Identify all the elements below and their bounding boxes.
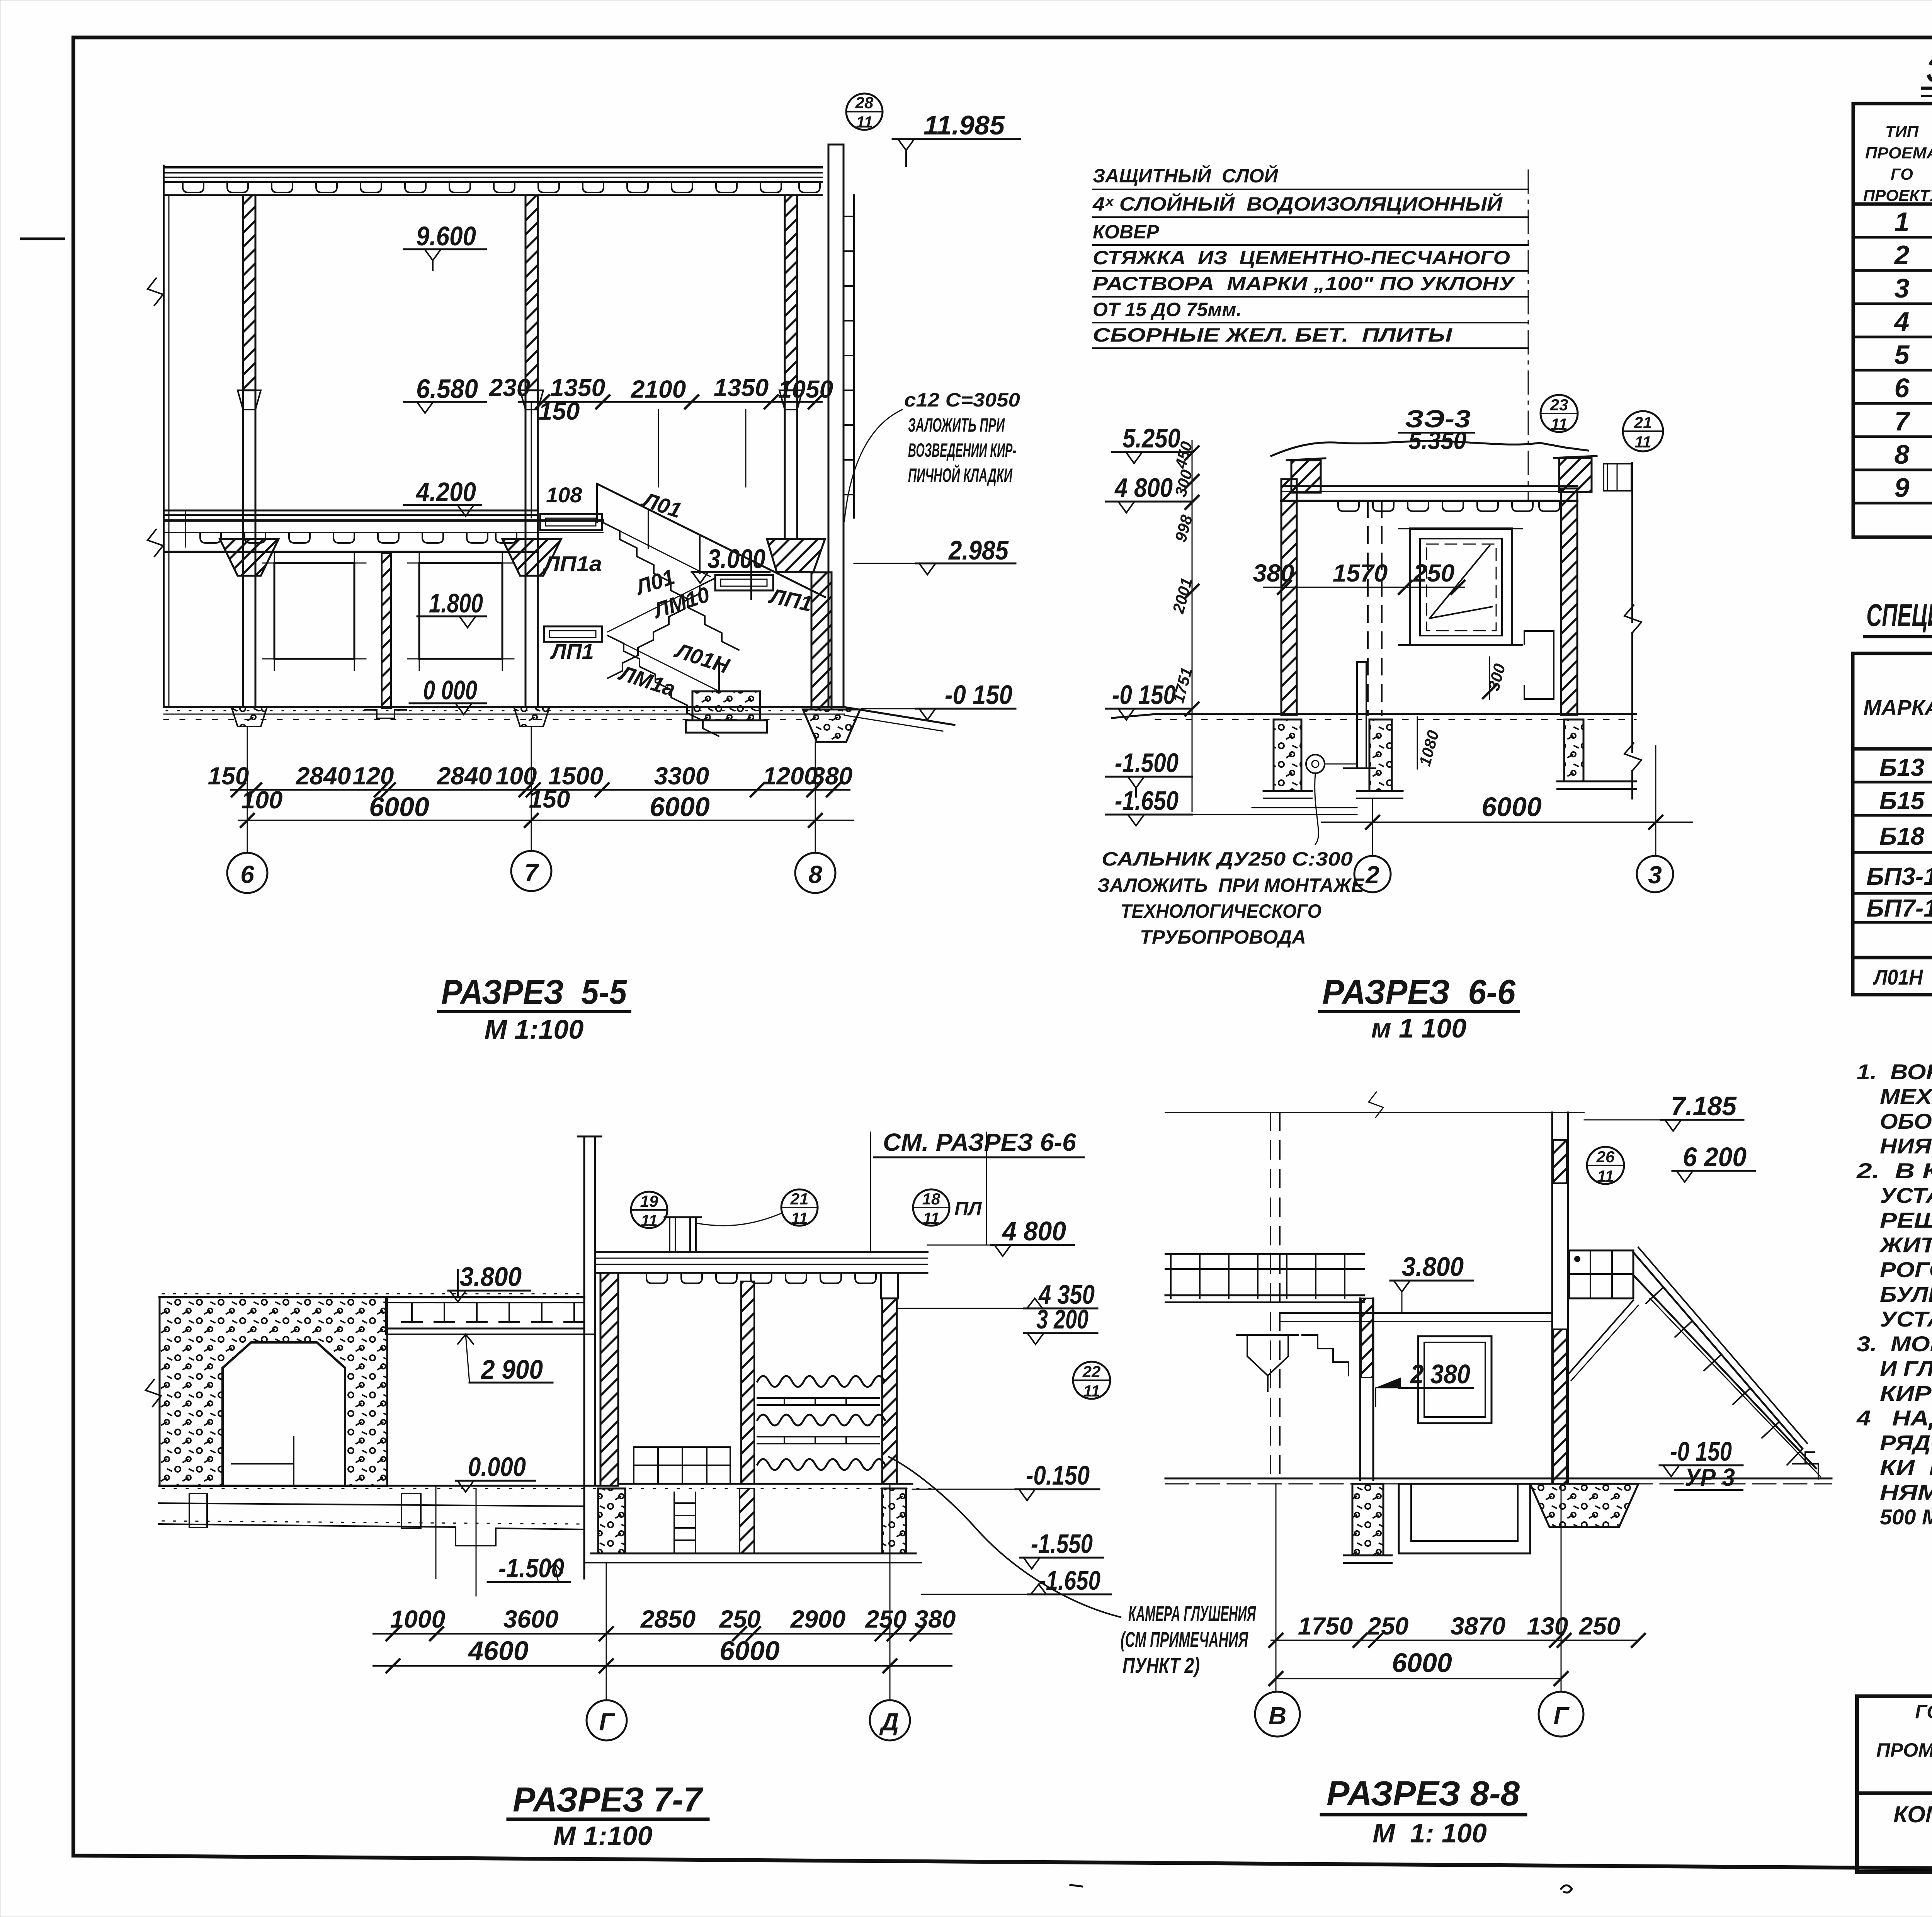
svg-text:11: 11: [791, 1209, 808, 1227]
elevation 4.350: [897, 1279, 1097, 1310]
elevation 2.900: [458, 1334, 553, 1385]
foundation left-center 8-8: [1344, 1484, 1392, 1563]
svg-text:1050: 1050: [778, 375, 833, 403]
dim 380 1570 250: [1253, 559, 1464, 594]
margin mark left: [21, 238, 64, 240]
svg-text:-1.500: -1.500: [1115, 748, 1179, 778]
pipe column: [1357, 662, 1366, 768]
interior opening 1: [263, 551, 366, 670]
svg-text:250: 250: [865, 1605, 907, 1633]
svg-text:СПЕЦИФИКАЦИЯ ПЕРЕМЫЧЕК И ЭЛ: СПЕЦИФИКАЦИЯ ПЕРЕМЫЧЕК И ЭЛЕМЕНТОВ ЛЕСТН…: [1866, 597, 1932, 633]
svg-text:м 1 100: м 1 100: [1371, 1013, 1466, 1043]
column axis 7: [502, 195, 561, 726]
svg-text:ПУНКТ 2): ПУНКТ 2): [1122, 1653, 1200, 1677]
cobble squiggles row 2: [757, 1415, 885, 1425]
lower stair flight LM1a: [608, 636, 719, 736]
svg-text:150: 150: [529, 785, 570, 813]
svg-text:1750: 1750: [1298, 1612, 1353, 1640]
svg-text:Д: Д: [879, 1708, 899, 1736]
elevation mark 9.600: [404, 221, 486, 270]
elevation mark 4.800: [1106, 473, 1192, 513]
svg-text:108: 108: [546, 483, 582, 507]
svg-text:4: 4: [1894, 306, 1910, 337]
floor slab at 4.200: [164, 510, 603, 552]
elevation 7.185: [1584, 1091, 1743, 1131]
left vertical dim chain: [1169, 439, 1199, 811]
svg-text:ПЛ: ПЛ: [954, 1198, 982, 1220]
svg-text:2: 2: [1365, 861, 1379, 889]
svg-text:КОМПРЕССОРНАЯ: КОМПРЕССОРНАЯ: [1893, 1801, 1932, 1827]
svg-text:ПИЧНОЙ КЛАДКИ: ПИЧНОЙ КЛАДКИ: [908, 464, 1013, 486]
notes text: [1856, 1060, 1932, 1529]
svg-text:2.985: 2.985: [948, 535, 1009, 565]
svg-text:4 800: 4 800: [1002, 1216, 1066, 1246]
break mark left 7-7: [146, 1379, 161, 1407]
ground line 8-8: [1165, 1478, 1832, 1484]
svg-text:БП7-1: БП7-1: [1866, 894, 1932, 922]
table 2 grid: [1853, 653, 1932, 995]
svg-text:150: 150: [539, 397, 580, 425]
svg-text:7: 7: [524, 859, 539, 886]
detail circle 21/11 (7-7): [696, 1189, 818, 1227]
svg-text:ЛП1: ЛП1: [550, 639, 594, 663]
svg-text:ПРОЕМА: ПРОЕМА: [1865, 144, 1932, 162]
upper stair landing LP1a: [540, 514, 602, 530]
svg-text:ЭКСПЛИКАЦИЯ ПРОЕМОВ ВОРОТ: ЭКСПЛИКАЦИЯ ПРОЕМОВ ВОРОТ И ДВЕРЕЙ.: [1926, 49, 1932, 90]
roof outline 6-6: [1271, 441, 1588, 456]
svg-text:КИРПИЧЕМ МАРКИ „100" НА РАС: КИРПИЧЕМ МАРКИ „100" НА РАСТВОРЕ МАРКИ „…: [1880, 1381, 1932, 1405]
svg-text:6000: 6000: [650, 792, 710, 822]
svg-text:РОГО НАСЫПАТЬ СЛОЙ ЩЕБНЯ Т: РОГО НАСЫПАТЬ СЛОЙ ЩЕБНЯ ТОЛЩИНОЙ 300 ММ…: [1880, 1257, 1932, 1282]
svg-text:0.000: 0.000: [468, 1452, 526, 1482]
svg-text:РЯДОВЫЕ ПЕРЕМЫЧКИ ВЫСОТОЙ Н: РЯДОВЫЕ ПЕРЕМЫЧКИ ВЫСОТОЙ НЕ МЕНЕЕ 5 РЯД…: [1880, 1431, 1932, 1455]
svg-text:11: 11: [923, 1209, 940, 1227]
svg-text:2840: 2840: [296, 762, 351, 790]
roof slab 5-5: [164, 165, 822, 197]
elevation mark 11.985: [893, 110, 1020, 166]
svg-text:-1.550: -1.550: [1031, 1529, 1093, 1559]
elevation mark 2.985: [854, 535, 1015, 575]
bottom dim row 1: [208, 762, 853, 814]
small steps 8-8: [1302, 1335, 1349, 1376]
center tall wall 7-7: [578, 1136, 618, 1579]
left hall wall mass with opening: [160, 1297, 387, 1486]
grate row 2: [757, 1437, 879, 1444]
svg-text:6: 6: [1895, 373, 1910, 403]
svg-text:2900: 2900: [790, 1605, 845, 1633]
elevation mark -1.650: [1106, 786, 1192, 826]
stair bottom landing: [1793, 1452, 1818, 1479]
svg-text:Б15: Б15: [1879, 787, 1925, 815]
svg-text:130: 130: [1527, 1612, 1568, 1640]
foundation right 8-8: [1530, 1484, 1638, 1527]
section title 7-7: [508, 1781, 708, 1851]
svg-text:М 1:100: М 1:100: [485, 1014, 584, 1044]
svg-text:4600: 4600: [468, 1636, 529, 1666]
svg-text:ТРУБОПРОВОДА: ТРУБОПРОВОДА: [1140, 926, 1306, 948]
central wall 8-8: [1360, 1298, 1373, 1480]
svg-text:Л01Н ВЫПОЛНИТЬ ПО ТИПУ Л01: Л01Н ВЫПОЛНИТЬ ПО ТИПУ Л01 ДЛИНОЙ 3300 В…: [1872, 965, 1932, 989]
svg-text:БП3-1: БП3-1: [1866, 862, 1932, 890]
svg-text:2 900: 2 900: [480, 1354, 543, 1385]
svg-text:ЗАЩИТНЫЙ СЛОЙ: ЗАЩИТНЫЙ СЛОЙ: [1093, 165, 1278, 187]
elevation mark -0.150: [862, 680, 1015, 720]
svg-text:8: 8: [1895, 439, 1910, 469]
svg-text:ТЕХНОЛОГИЧЕСКОГО: ТЕХНОЛОГИЧЕСКОГО: [1121, 900, 1321, 922]
svg-text:380: 380: [811, 762, 853, 790]
note c12 e=3050: [844, 389, 1020, 522]
svg-text:Б13: Б13: [1879, 754, 1925, 781]
break mark left wall: [148, 278, 163, 305]
svg-text:2850: 2850: [640, 1605, 696, 1633]
salnik note text: [1097, 848, 1365, 948]
table 2 headers: [1863, 670, 1932, 741]
svg-text:4 800: 4 800: [1114, 473, 1173, 503]
bottom dim row 2: [238, 792, 854, 827]
svg-text:3.800: 3.800: [460, 1262, 522, 1292]
svg-text:5.250: 5.250: [1122, 423, 1180, 453]
svg-text:1000: 1000: [390, 1605, 445, 1633]
svg-text:6000: 6000: [719, 1636, 780, 1666]
right footing: [803, 709, 860, 742]
svg-text:НИЯ СОГЛАСНО ЛИСТУ 12 СЕРИИ: НИЯ СОГЛАСНО ЛИСТУ 12 СЕРИИ ПР-05-36.4: [1880, 1134, 1932, 1158]
elevation mark -0.150 6-6: [1106, 680, 1192, 720]
svg-text:380: 380: [915, 1605, 956, 1633]
bottom dims 7-7 row1: [373, 1605, 956, 1640]
tall wall column right: [828, 145, 854, 707]
dim 6000 6-6: [1321, 792, 1692, 829]
middle stair landing LP1: [715, 575, 773, 590]
equipment box right of window: [1524, 631, 1554, 699]
svg-text:3870: 3870: [1451, 1612, 1505, 1640]
svg-text:11: 11: [641, 1211, 658, 1230]
svg-text:-0.150: -0.150: [1026, 1460, 1090, 1490]
exterior stair 8-8: descending band: [1633, 1247, 1821, 1477]
svg-text:РАСТВОРА МАРКИ „100" ПО УКЛОН: РАСТВОРА МАРКИ „100" ПО УКЛОНУ: [1093, 273, 1516, 294]
svg-text:19: 19: [640, 1192, 658, 1210]
svg-text:МЕХАНИЗМА ОТКРЫВАНИЯ , ПОЛОТ: МЕХАНИЗМА ОТКРЫВАНИЯ , ПОЛОТНА ВОРОТ ДОЛ…: [1880, 1084, 1932, 1109]
svg-text:250: 250: [1367, 1612, 1409, 1640]
pit ladder: [674, 1492, 696, 1553]
svg-text:РАЗРЕЗ 7-7: РАЗРЕЗ 7-7: [513, 1781, 704, 1819]
svg-text:250: 250: [1579, 1612, 1621, 1640]
window 8-8: [1418, 1336, 1492, 1423]
svg-text:26: 26: [1596, 1148, 1615, 1166]
upper stair flight L01: [597, 484, 825, 650]
svg-text:РАЗРЕЗ 5-5: РАЗРЕЗ 5-5: [441, 973, 628, 1012]
elevation 6.200: [1672, 1142, 1755, 1182]
svg-text:3: 3: [1648, 861, 1662, 889]
hall floor slab with I-beams: [160, 1294, 595, 1334]
svg-text:6: 6: [240, 861, 254, 888]
svg-text:2: 2: [1894, 240, 1910, 270]
ground line 6-6: [1112, 714, 1636, 720]
axis circle G: [587, 1563, 627, 1740]
elevation 3.800 7-7: [448, 1262, 530, 1302]
svg-text:(СМ ПРИМЕЧАНИЯ: (СМ ПРИМЕЧАНИЯ: [1121, 1627, 1248, 1652]
svg-text:6 200: 6 200: [1683, 1142, 1747, 1172]
elevation -0.150 8-8: [1660, 1436, 1743, 1491]
svg-text:11: 11: [1551, 415, 1568, 433]
elevation 3200: [1024, 1304, 1097, 1344]
svg-text:4 НАД ПРОЕМАМИ ШИРИНОЙ: 4 НАД ПРОЕМАМИ ШИРИНОЙ МЕНЕЕ 600 ММ ВЫПО…: [1856, 1406, 1932, 1430]
svg-text:ЗАЛОЖИТЬ ПРИ: ЗАЛОЖИТЬ ПРИ: [908, 414, 1005, 436]
svg-text:-0 150: -0 150: [1112, 680, 1176, 710]
axis circle D: [870, 1484, 910, 1740]
foundation right: [1557, 720, 1636, 789]
svg-text:2840: 2840: [437, 762, 492, 790]
table 2 data: [1866, 750, 1932, 952]
cobble squiggles row 3: [757, 1459, 885, 1470]
svg-text:11: 11: [1597, 1167, 1614, 1185]
svg-text:1: 1: [1895, 207, 1910, 237]
window 6-6: [1399, 529, 1522, 645]
svg-text:6000: 6000: [1392, 1648, 1452, 1678]
svg-text:КИ НА РАСТВОРЕ. МАРКИ „50": КИ НА РАСТВОРЕ. МАРКИ „50" АРМИРОВАТЬ 3М…: [1880, 1455, 1932, 1480]
svg-text:М 1: 100: М 1: 100: [1372, 1818, 1487, 1848]
svg-text:0 000: 0 000: [423, 675, 477, 705]
svg-text:4ˣ СЛОЙНЫЙ ВОДОИЗОЛЯЦИОННЫЙ: 4ˣ СЛОЙНЫЙ ВОДОИЗОЛЯЦИОННЫЙ: [1092, 193, 1503, 215]
svg-text:8: 8: [808, 861, 822, 888]
interior wall 7-7: [741, 1281, 754, 1484]
dashed column left 8-8: [1270, 1112, 1280, 1478]
svg-text:ОТ 15 ДО 75мм.: ОТ 15 ДО 75мм.: [1093, 299, 1242, 320]
svg-text:И ГЛУШЕНИЯ, ПОСЛЕ МОНТАЖА О: И ГЛУШЕНИЯ, ПОСЛЕ МОНТАЖА ОБОРУДОВАНИЯ З…: [1880, 1356, 1932, 1381]
svg-text:1350: 1350: [714, 374, 769, 401]
svg-text:ЛП1а: ЛП1а: [543, 551, 602, 576]
stair foundation block: [686, 691, 767, 733]
grate row 1: [757, 1398, 879, 1405]
svg-text:РАЗРЕЗ 6-6: РАЗРЕЗ 6-6: [1322, 973, 1516, 1012]
ceiling ribs: [1338, 501, 1560, 511]
svg-text:СБОРНЫЕ ЖЕЛ. БЕТ. ПЛИТЫ: СБОРНЫЕ ЖЕЛ. БЕТ. ПЛИТЫ: [1093, 324, 1452, 346]
ground slab: [164, 707, 954, 731]
table 1 grid: [1853, 104, 1932, 537]
svg-text:ПРОМСТРОЙНИИПРОЕКТ: ПРОМСТРОЙНИИПРОЕКТ: [1876, 1739, 1932, 1761]
elevation mark 3.000: [692, 544, 770, 583]
svg-text:Г: Г: [1553, 1702, 1570, 1730]
axis circle V: [1255, 1484, 1300, 1737]
svg-text:120: 120: [353, 762, 394, 790]
section title 6-6: [1320, 973, 1519, 1043]
svg-text:21: 21: [1634, 413, 1652, 432]
left wall 6-6: [1281, 479, 1297, 715]
svg-text:6000: 6000: [369, 792, 429, 822]
elevation -1.650 7-7: [922, 1565, 1111, 1596]
canopy slab over chamber: [595, 1252, 927, 1283]
brick wall under tall column: [811, 572, 832, 709]
svg-text:КАМЕРА ГЛУШЕНИЯ: КАМЕРА ГЛУШЕНИЯ: [1128, 1601, 1256, 1626]
pit bottom lines: [1155, 814, 1357, 815]
table 1 data: [1894, 206, 1932, 509]
bottom dims 8-8 row2: [1269, 1648, 1568, 1685]
svg-text:3300: 3300: [654, 762, 709, 790]
svg-text:4.200: 4.200: [415, 477, 476, 507]
svg-text:3600: 3600: [503, 1605, 558, 1633]
svg-text:-0 150: -0 150: [945, 680, 1012, 710]
chimney vent: [665, 1217, 701, 1252]
section title 8-8: [1321, 1774, 1526, 1848]
left parapet block: [1287, 458, 1325, 493]
middle stair flight LM10: [608, 578, 715, 678]
column axis 8: [767, 195, 825, 572]
elevation 4.800 7-7: [927, 1132, 1074, 1256]
partition dashed: [1368, 501, 1382, 715]
svg-text:250: 250: [719, 1605, 761, 1633]
interior opening 2: [408, 551, 514, 670]
svg-text:-1.650: -1.650: [1115, 786, 1179, 816]
svg-text:1. ВОРОТА УСТАНАВЛИВАТЬ БЕ: 1. ВОРОТА УСТАНАВЛИВАТЬ БЕЗ ВОЗДУШНОЙ ЗА…: [1857, 1060, 1932, 1084]
elevation -1.500 7-7: [488, 1553, 570, 1583]
lower stair landing LP1: [544, 626, 602, 642]
svg-text:3.000: 3.000: [707, 544, 765, 574]
detail circle 19/11: [631, 1192, 667, 1230]
service platform with railing: [1165, 1254, 1364, 1302]
svg-text:6.580: 6.580: [416, 374, 478, 404]
svg-text:УСТАНОВКОЙ РЕШЕТОК , НАЧИНАЯ: УСТАНОВКОЙ РЕШЕТОК , НАЧИНАЯ С ОТМ ± 0 0…: [1880, 1307, 1932, 1331]
svg-text:6000: 6000: [1481, 792, 1542, 822]
svg-text:9: 9: [1895, 473, 1910, 503]
svg-text:18: 18: [922, 1190, 940, 1208]
roof slab ribs: [183, 182, 820, 192]
svg-text:7: 7: [1895, 406, 1911, 436]
table 1 title underline: [1922, 87, 1932, 90]
svg-text:В: В: [1269, 1702, 1286, 1730]
column axis 6: [220, 195, 279, 726]
svg-text:2. В КАМЕРАХ ГЛУШЕНИЯ НА: 2. В КАМЕРАХ ГЛУШЕНИЯ НА ОТМ. ± 0.000, 1…: [1856, 1158, 1932, 1183]
detail circle 21/11: [1623, 411, 1663, 451]
elevation 3.800 8-8: [1390, 1252, 1473, 1313]
elevation mark 5.250: [1112, 423, 1192, 463]
svg-text:ПРОЕКТУ: ПРОЕКТУ: [1863, 186, 1932, 204]
elevation mark 0.000: [410, 675, 486, 714]
svg-text:28: 28: [855, 94, 874, 112]
roofing spec note block: [1092, 165, 1528, 501]
right wall 8-8: [1552, 1112, 1568, 1484]
svg-text:2100: 2100: [631, 375, 686, 403]
svg-text:М 1:100: М 1:100: [553, 1821, 653, 1851]
detail circle 18/11 PL: [913, 1189, 982, 1227]
svg-text:3.800: 3.800: [1402, 1252, 1464, 1282]
svg-text:1570: 1570: [1333, 559, 1388, 587]
foundation middle: [1357, 720, 1403, 798]
axis circle 6: [227, 726, 267, 893]
svg-text:500 ММ.: 500 ММ.: [1880, 1505, 1932, 1529]
svg-text:ЗАЛОЖИТЬ ПРИ МОНТАЖЕ: ЗАЛОЖИТЬ ПРИ МОНТАЖЕ: [1097, 874, 1365, 896]
row lines col1-2 full: [1853, 236, 1932, 239]
svg-text:РЕШЕТОК СМОТРИТЕ НА ЛИСТЕ: РЕШЕТОК СМОТРИТЕ НА ЛИСТЕ АР-22) НА РЕШЕ…: [1880, 1208, 1932, 1232]
svg-text:1.800: 1.800: [429, 588, 483, 618]
top dimension chain 230 1350 2100 1350 1050: [489, 374, 833, 518]
table 1 headers: [1863, 122, 1932, 204]
floor slab ribs: [200, 532, 517, 543]
svg-text:3. МОНТАЖНЫЕ, ПРОЕМЫ, В СТЕ: 3. МОНТАЖНЫЕ, ПРОЕМЫ, В СТЕНАХ КАМЕР ВОЗ…: [1857, 1332, 1932, 1356]
detail circle 28/11: [846, 94, 883, 131]
labels ZE-3 and 5.350: [1399, 405, 1474, 454]
svg-text:ВОЗВЕДЕНИИ КИР-: ВОЗВЕДЕНИИ КИР-: [908, 439, 1016, 461]
axis circle 8: [795, 742, 835, 893]
elevation mark 4.200: [404, 477, 481, 516]
svg-text:с12 С=3050: с12 С=3050: [904, 389, 1020, 411]
stray mark bottom: [1561, 1885, 1572, 1893]
svg-text:УР 3: УР 3: [1685, 1463, 1735, 1491]
svg-text:11: 11: [1083, 1382, 1100, 1400]
svg-text:СМ. РАЗРЕЗ 6-6: СМ. РАЗРЕЗ 6-6: [883, 1128, 1076, 1156]
svg-text:230: 230: [489, 374, 531, 401]
svg-text:ЖИТЬ СЛОЙ БУЛЫЖНИКА ТОЛЩИНО: ЖИТЬ СЛОЙ БУЛЫЖНИКА ТОЛЩИНОЙ 200ММ, СВЕР…: [1879, 1233, 1932, 1257]
bottom dims 8-8 row1: [1269, 1612, 1645, 1647]
grate grid lower left chamber: [634, 1447, 730, 1484]
basement beams under hall: [159, 1486, 583, 1596]
svg-text:3: 3: [1895, 273, 1910, 303]
bottom dims 7-7 row2: [373, 1636, 952, 1672]
wall beyond right with break: [1624, 463, 1641, 799]
svg-text:9.600: 9.600: [416, 221, 476, 251]
section title 5-5: [439, 973, 630, 1044]
elevation mark 6.580: [404, 374, 486, 413]
left wall line: [163, 195, 165, 707]
svg-text:1200: 1200: [763, 762, 818, 790]
svg-text:11: 11: [1634, 433, 1651, 451]
svg-text:КОВЕР: КОВЕР: [1093, 221, 1159, 243]
svg-text:-1.650: -1.650: [1039, 1565, 1100, 1596]
svg-text:3 200: 3 200: [1036, 1304, 1088, 1334]
pit walls 7-7: [585, 1488, 922, 1563]
hopper funnel: [1236, 1335, 1298, 1391]
elevation 2.380: [1376, 1359, 1473, 1407]
chamber floor 7-7: [160, 1484, 933, 1488]
right wall 7-7: [881, 1273, 898, 1484]
elevation -0.150 7-7: [912, 1460, 1099, 1500]
elevation -1.550: [1020, 1529, 1103, 1569]
svg-text:21: 21: [790, 1190, 809, 1208]
detail circle 26/11: [1587, 1147, 1624, 1185]
svg-text:УСТАНОВИТЬ СТАЛЬНЫЕ РЕШЕТКИ: УСТАНОВИТЬ СТАЛЬНЫЕ РЕШЕТКИ (МАРКИРОВОЧН…: [1880, 1183, 1932, 1208]
svg-text:СТЯЖКА ИЗ ЦЕМЕНТНО-ПЕСЧАНОГО: СТЯЖКА ИЗ ЦЕМЕНТНО-ПЕСЧАНОГО: [1093, 247, 1510, 269]
svg-text:11.985: 11.985: [923, 110, 1005, 140]
pit 8-8: [1399, 1484, 1530, 1553]
svg-text:ТИП: ТИП: [1885, 122, 1919, 141]
svg-text:Г: Г: [599, 1708, 615, 1736]
stair brace: [1568, 1300, 1638, 1381]
kamera glusheniya note: [889, 1457, 1256, 1677]
top wall line 8-8: [1165, 1092, 1584, 1118]
svg-text:-1.500: -1.500: [498, 1553, 564, 1583]
svg-text:ГО: ГО: [1891, 165, 1913, 183]
svg-text:11: 11: [856, 113, 873, 131]
svg-text:Б18: Б18: [1879, 822, 1925, 850]
foundation left: [1264, 720, 1312, 798]
svg-text:БУЛЫЖНИКА И ЩЕБНЯ ПРОИЗВОДИ: БУЛЫЖНИКА И ЩЕБНЯ ПРОИЗВОДИТЬ ОДНОВРЕМЕН…: [1880, 1282, 1932, 1306]
svg-text:7.185: 7.185: [1671, 1091, 1737, 1121]
svg-text:ГОССТРОЙ СССР: ГОССТРОЙ СССР: [1915, 1701, 1932, 1723]
right parapet block: [1554, 456, 1631, 492]
cobble squiggles row 1: [757, 1376, 885, 1387]
elevation mark 1.800: [417, 588, 486, 628]
detail circle 23/11: [1541, 395, 1578, 433]
ceiling slab 6-6: [1281, 486, 1577, 501]
svg-text:250: 250: [1413, 559, 1455, 587]
ceiling beam 8-8: [1281, 1313, 1552, 1322]
svg-text:САЛЬНИК ДУ250 С:300: САЛЬНИК ДУ250 С:300: [1102, 848, 1353, 870]
svg-text:МАРКА: МАРКА: [1863, 695, 1932, 720]
label SM.RAZREZ 6-6: [871, 1128, 1084, 1252]
right wall 6-6: [1561, 488, 1577, 715]
svg-text:23: 23: [1550, 396, 1568, 414]
elevation mark -1.500: [1106, 748, 1192, 797]
axis circle G8: [1539, 1484, 1583, 1737]
exterior stair 8-8: top platform: [1569, 1250, 1633, 1298]
